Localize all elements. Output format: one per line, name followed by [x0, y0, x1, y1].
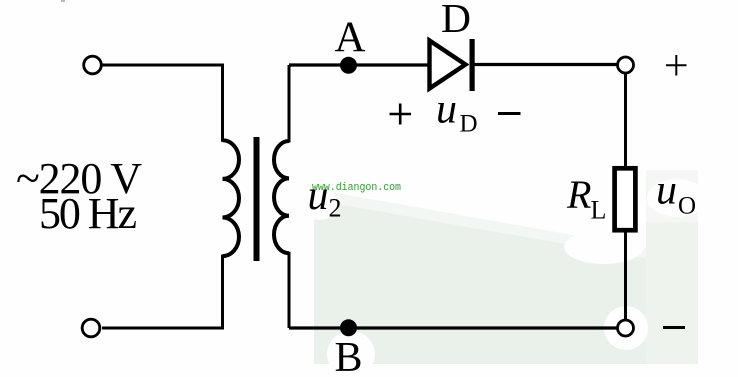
svg-text:O: O — [678, 193, 696, 220]
svg-text:L: L — [591, 195, 607, 224]
svg-text:D: D — [441, 0, 471, 41]
svg-text:u: u — [656, 168, 677, 214]
svg-text:A: A — [334, 14, 365, 61]
svg-text:u: u — [308, 173, 329, 219]
svg-text:2: 2 — [329, 194, 342, 223]
svg-text:u: u — [436, 87, 457, 133]
svg-text:D: D — [460, 111, 478, 138]
svg-text:B: B — [334, 335, 362, 377]
svg-text:50 Hz: 50 Hz — [39, 189, 137, 238]
svg-text:R: R — [566, 172, 591, 217]
